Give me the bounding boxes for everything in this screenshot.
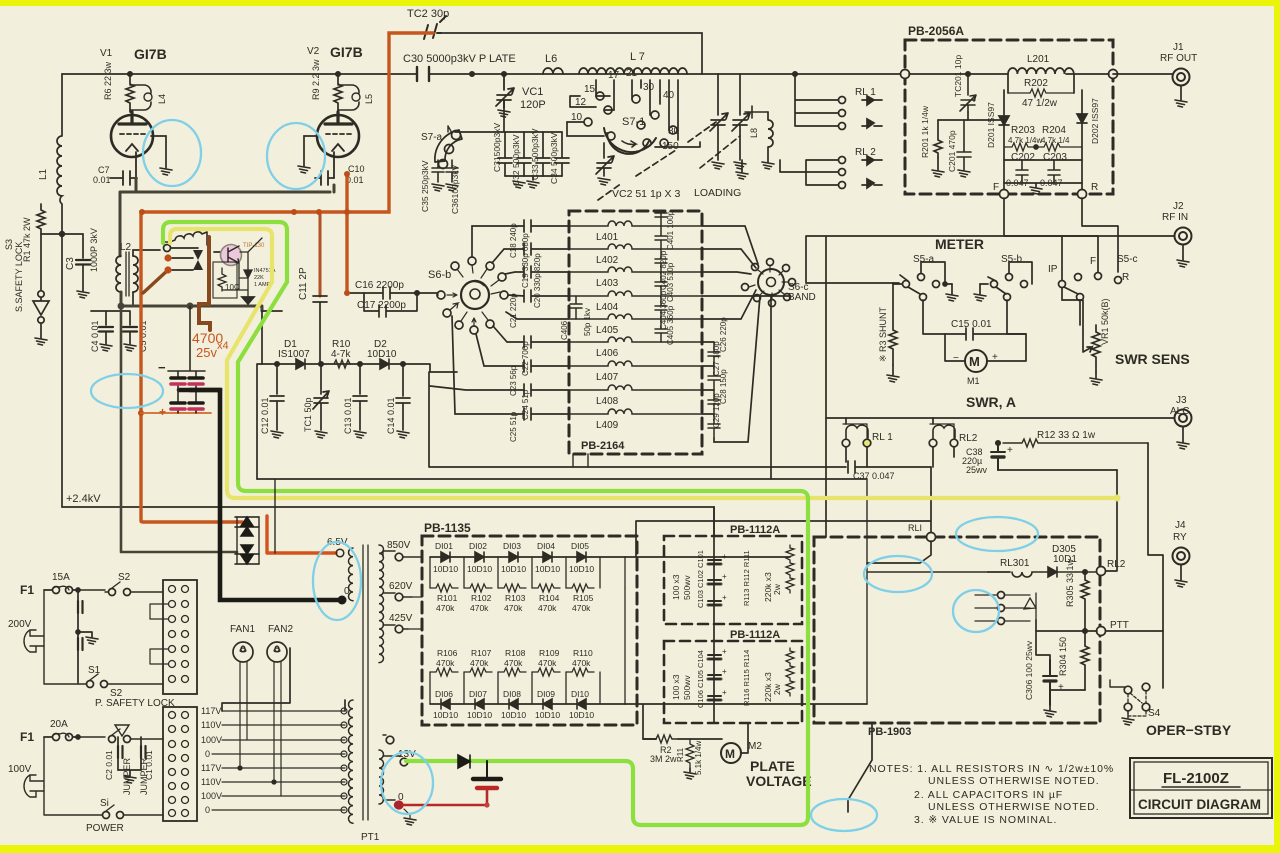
svg-text:R6 22 3w: R6 22 3w <box>103 61 113 100</box>
resistor R105 <box>566 584 594 592</box>
svg-text:RL 2: RL 2 <box>855 147 876 158</box>
wire IP down <box>1062 288 1080 300</box>
annotation ellipse 6.5V winding <box>313 542 361 620</box>
svg-text:10D10: 10D10 <box>367 349 397 360</box>
svg-text:F1: F1 <box>20 583 34 597</box>
svg-text:VC1: VC1 <box>522 86 543 98</box>
wire ell6 row <box>988 571 1010 573</box>
capacitor C26 <box>708 342 720 366</box>
resistor R108 z <box>498 668 526 676</box>
svg-text:R113 R112 R111: R113 R112 R111 <box>742 550 751 606</box>
svg-text:20A: 20A <box>50 719 68 730</box>
capacitor C20 <box>524 266 569 278</box>
ground J2 <box>1177 260 1189 267</box>
svg-text:+2.4kV: +2.4kV <box>66 493 101 505</box>
node red terminal <box>394 801 402 809</box>
resistor R202 <box>1008 89 1074 97</box>
svg-text:+: + <box>722 647 727 656</box>
svg-text:500wv: 500wv <box>682 675 692 700</box>
svg-text:DI03: DI03 <box>503 541 521 551</box>
svg-text:C11 2P: C11 2P <box>298 267 309 300</box>
terminal PTT <box>1097 627 1106 636</box>
wire F1b <box>44 736 78 738</box>
svg-text:2w: 2w <box>772 683 782 695</box>
svg-text:425V: 425V <box>389 613 413 624</box>
relay coil RL1 <box>846 425 868 438</box>
svg-text:C29 120p: C29 120p <box>712 393 721 428</box>
svg-text:C406: C406 <box>560 320 569 340</box>
wire rectifier box <box>237 480 275 564</box>
svg-text:R105: R105 <box>573 593 594 603</box>
capacitor C13 <box>353 364 367 430</box>
svg-text:50p 1kv: 50p 1kv <box>583 308 592 336</box>
transformer PT1 secondary winding <box>379 545 384 663</box>
transformer PT1 13V winding <box>379 750 384 804</box>
capacitor C35 <box>432 160 444 182</box>
wire tap 12 <box>570 96 596 107</box>
svg-text:R108: R108 <box>505 648 526 658</box>
ground 13V <box>404 809 410 818</box>
wire fans joints <box>238 766 242 770</box>
ground L8 <box>762 162 774 169</box>
node 0V terminal <box>338 596 347 605</box>
svg-text:L1: L1 <box>38 168 49 180</box>
svg-text:JUMPER: JUMPER <box>139 757 149 795</box>
svg-text:J4: J4 <box>1175 520 1186 531</box>
svg-text:R304 150: R304 150 <box>1058 637 1068 676</box>
resistor R1 <box>37 204 62 234</box>
svg-text:DI01: DI01 <box>435 541 453 551</box>
svg-text:DI05: DI05 <box>571 541 589 551</box>
resistor R102 <box>464 584 492 592</box>
ground C13 <box>354 431 366 438</box>
ground TC1 <box>315 431 327 438</box>
svg-text:L402: L402 <box>596 255 619 266</box>
diode D110 <box>577 699 586 709</box>
svg-text:C106 C105 C104: C106 C105 C104 <box>696 650 705 708</box>
svg-text:10D10: 10D10 <box>433 564 458 574</box>
node psu mid <box>76 630 80 634</box>
svg-text:C36100p3kV: C36100p3kV <box>450 165 460 214</box>
rectifier diode stack bottom <box>235 545 259 564</box>
svg-text:L 7: L 7 <box>630 51 645 63</box>
svg-text:+: + <box>722 688 727 697</box>
svg-text:R204: R204 <box>1042 125 1066 136</box>
wire V2 grid to ground <box>304 136 319 166</box>
capacitor C16 <box>349 287 438 299</box>
svg-text:470k: 470k <box>538 658 557 668</box>
wire bias bus <box>121 306 262 311</box>
svg-text:C17 2200p: C17 2200p <box>357 300 406 311</box>
wire RLI down <box>867 541 931 563</box>
svg-text:J1: J1 <box>1173 42 1184 53</box>
svg-text:CIRCUIT DIAGRAM: CIRCUIT DIAGRAM <box>1138 797 1261 812</box>
wire S7-1 out <box>567 122 700 147</box>
svg-text:40: 40 <box>663 90 675 101</box>
svg-text:C405 360p: C405 360p <box>666 305 675 345</box>
svg-text:V1: V1 <box>100 48 113 59</box>
switch S5-a <box>903 281 910 288</box>
wire box bottom tail <box>848 723 872 812</box>
switch S6-c contacts <box>752 264 759 271</box>
switch S2b interlock <box>78 729 163 739</box>
node VC1 top <box>502 72 506 76</box>
inductor L402 <box>569 244 702 249</box>
ground J3 <box>1177 442 1189 449</box>
svg-text:METER: METER <box>935 236 984 252</box>
meter M2 <box>721 743 741 763</box>
resistor R106 z <box>430 668 458 676</box>
wire RL1 stubs <box>846 418 867 467</box>
wire 620V into bridge <box>408 597 422 629</box>
wire C306 bottom ground <box>1049 705 1051 710</box>
svg-text:C30 5000p3kV P LATE: C30 5000p3kV P LATE <box>403 53 516 65</box>
capacitor C29 <box>708 414 720 438</box>
tube V2 envelope <box>317 115 359 157</box>
wire R201 top <box>938 119 968 121</box>
svg-text:PB-2164: PB-2164 <box>581 440 625 452</box>
resistor R6 <box>126 74 134 112</box>
node R305 top <box>1083 570 1087 574</box>
node bias mid <box>187 303 194 310</box>
tube V2 cathode <box>332 144 344 151</box>
variable capacitor VC1 <box>496 74 514 108</box>
svg-text:DI02: DI02 <box>469 541 487 551</box>
svg-text:470k: 470k <box>504 658 523 668</box>
wire orange HV feed <box>141 33 433 522</box>
wire green highlight path <box>163 222 808 825</box>
svg-text:RL301: RL301 <box>1000 558 1030 569</box>
node R10 left <box>319 362 323 366</box>
resistor R2 <box>656 735 678 743</box>
svg-text:3M 2w: 3M 2w <box>650 754 677 764</box>
connector J2 <box>1175 228 1192 245</box>
svg-text:22K: 22K <box>254 275 264 281</box>
node yellow end <box>1114 495 1121 502</box>
capacitor stack upper <box>708 560 721 605</box>
wire L2 primary bottom <box>120 292 123 305</box>
ground J4 <box>1175 580 1187 587</box>
svg-text:F: F <box>993 182 999 193</box>
svg-text:620V: 620V <box>389 581 413 592</box>
wire rows to S6c <box>702 226 790 442</box>
capacitor PSU b <box>78 638 83 650</box>
ground VC2 <box>598 178 610 185</box>
capacitor C11 <box>319 212 322 296</box>
border right yellow <box>1274 0 1280 853</box>
svg-text:L407: L407 <box>596 372 619 383</box>
diode D101 <box>441 552 450 562</box>
svg-text:25wv: 25wv <box>966 465 988 475</box>
wire M2 right <box>741 723 748 753</box>
node L2 bottom <box>118 303 125 310</box>
svg-text:FAN2: FAN2 <box>268 624 293 635</box>
svg-text:C21 220p: C21 220p <box>509 293 518 328</box>
svg-text:C306 100 25wv: C306 100 25wv <box>1024 640 1034 700</box>
resistor R104 <box>532 584 560 592</box>
svg-text:R107: R107 <box>471 648 492 658</box>
capacitor C37 <box>429 372 931 473</box>
svg-text:120P: 120P <box>520 99 546 111</box>
box transistor bias <box>213 262 237 298</box>
svg-text:R116 R115 R114: R116 R115 R114 <box>742 650 751 706</box>
svg-text:R103: R103 <box>505 593 526 603</box>
svg-text:L406: L406 <box>596 348 619 359</box>
svg-text:L408: L408 <box>596 396 619 407</box>
wire FAN2 down <box>274 662 281 796</box>
svg-text:PB-2056A: PB-2056A <box>908 24 964 38</box>
svg-text:S4: S4 <box>1148 708 1161 719</box>
capacitor C202 <box>1016 160 1028 183</box>
svg-text:15: 15 <box>584 84 596 95</box>
svg-text:+: + <box>722 593 727 602</box>
svg-text:R: R <box>1091 182 1098 193</box>
svg-text:C401 100p: C401 100p <box>666 210 675 250</box>
capacitor C12 <box>270 364 284 430</box>
terminal primary taps <box>341 708 347 813</box>
svg-text:100 x3: 100 x3 <box>671 574 681 600</box>
switch S power <box>103 812 110 819</box>
svg-text:UNLESS OTHERWISE NOTED.: UNLESS OTHERWISE NOTED. <box>928 775 1100 787</box>
wire orange cap return <box>141 409 211 413</box>
svg-text:−: − <box>158 360 166 375</box>
box PB-1903 <box>814 537 1100 723</box>
switch S3 interlock <box>38 291 44 297</box>
capacitor C7 <box>110 171 137 185</box>
resistor R10 <box>334 360 350 368</box>
wire to J1 <box>1113 73 1172 75</box>
svg-text:+: + <box>722 552 727 561</box>
svg-text:RL2: RL2 <box>1107 559 1126 570</box>
ground C202 <box>1030 187 1042 194</box>
svg-text:R203: R203 <box>1011 125 1035 136</box>
terminal 6.5V circle <box>336 549 344 557</box>
svg-text:PT1: PT1 <box>361 832 380 843</box>
wire C3 branch <box>62 234 83 258</box>
diode D2 <box>380 359 389 369</box>
wire HV feed y521 <box>636 467 931 557</box>
wire C4 C5 branch <box>91 311 130 325</box>
terminal box right <box>1109 70 1118 79</box>
resistor R203 <box>1004 143 1036 151</box>
capacitor C201 <box>957 120 971 170</box>
wire C202/C203 bus <box>1004 160 1082 187</box>
diode D109 <box>543 699 552 709</box>
svg-text:21: 21 <box>626 68 638 79</box>
zener diode <box>240 262 252 286</box>
inductor L404 <box>569 291 702 296</box>
inductor L407 <box>569 361 702 366</box>
svg-text:R9 2.2 3w: R9 2.2 3w <box>311 59 321 100</box>
ground S3 <box>35 338 47 345</box>
wire R2 row <box>643 738 656 740</box>
svg-text:C31500p3kV: C31500p3kV <box>492 123 502 172</box>
node F1b right <box>76 735 80 739</box>
terminal 425V <box>395 625 403 633</box>
capacitor C36 <box>446 160 458 182</box>
wire C306 top <box>1036 620 1050 660</box>
resistor R12 <box>1003 439 1148 447</box>
svg-text:RL 1: RL 1 <box>855 87 876 98</box>
svg-text:10D10: 10D10 <box>569 564 594 574</box>
svg-text:C10: C10 <box>348 164 365 174</box>
svg-text:JUMPER: JUMPER <box>122 757 132 795</box>
svg-text:GI7B: GI7B <box>134 46 167 62</box>
svg-text:S5-b: S5-b <box>1001 254 1023 265</box>
node relay feed <box>793 72 797 76</box>
ground VC1 <box>498 110 510 117</box>
svg-text:OPER−STBY: OPER−STBY <box>1146 722 1232 738</box>
meter M1 <box>965 350 987 372</box>
ground VR1 <box>1095 372 1097 378</box>
terminal strip lower <box>163 707 197 821</box>
capacitor stack lower <box>708 655 721 700</box>
box PB-1112A lower <box>664 641 802 723</box>
annotation ellipse RLI top <box>956 517 1038 551</box>
svg-text:10D10: 10D10 <box>535 564 560 574</box>
svg-text:M1: M1 <box>967 376 980 386</box>
inductor L405 <box>569 314 702 319</box>
capacitor C3 <box>76 260 90 265</box>
switch S4 <box>1124 686 1132 694</box>
svg-text:+: + <box>722 667 727 676</box>
svg-text:L409: L409 <box>596 420 619 431</box>
terminal 850V <box>395 553 403 561</box>
inductor L7 <box>579 68 687 74</box>
wire HV rail left <box>61 234 63 507</box>
switch S2 <box>109 589 116 596</box>
svg-text:IP: IP <box>1048 264 1058 275</box>
wire bridge verticals upper <box>430 557 625 588</box>
svg-text:47 1/2w: 47 1/2w <box>1022 98 1058 109</box>
svg-text:DI09: DI09 <box>537 689 555 699</box>
wire R1 down <box>40 234 42 290</box>
capacitor C22 <box>524 336 569 348</box>
wire x826 riser <box>825 467 827 537</box>
svg-text:R106: R106 <box>437 648 458 658</box>
svg-text:C24 51p: C24 51p <box>521 389 530 420</box>
wire relay feed vertical <box>795 74 838 126</box>
svg-text:1000P 3kV: 1000P 3kV <box>89 228 99 272</box>
title divider <box>1130 789 1272 791</box>
wire strip upper stubs <box>150 604 168 664</box>
resistor R103 <box>498 584 526 592</box>
capacitor TC2 <box>389 16 446 39</box>
svg-text:C3: C3 <box>65 257 76 270</box>
resistor R204 <box>1036 143 1082 151</box>
switch S5-b <box>991 281 998 288</box>
relay RL1 contacts <box>839 97 846 104</box>
svg-text:RY: RY <box>1173 532 1187 543</box>
svg-text:+: + <box>992 352 998 363</box>
diode D107 <box>475 699 484 709</box>
svg-text:PB-1135: PB-1135 <box>424 521 471 535</box>
wire strip lower rows <box>212 711 345 810</box>
capacitor C31 <box>498 132 512 176</box>
wire ALC line <box>826 418 1174 467</box>
capacitor C14 <box>396 364 410 430</box>
svg-text:C37 0.047: C37 0.047 <box>853 471 895 481</box>
capacitor C23 <box>524 360 569 372</box>
wire bridge top rail <box>430 556 625 558</box>
relay coil RL301 <box>1012 572 1048 577</box>
capacitor C19 <box>524 243 569 255</box>
annotation ellipse RL301 contacts <box>953 590 999 632</box>
svg-text:L404: L404 <box>596 302 619 313</box>
capacitor C34 <box>555 132 569 176</box>
wire L201 frame <box>909 74 1109 93</box>
svg-text:C203: C203 <box>1043 152 1067 163</box>
resistor R11 <box>686 739 694 768</box>
svg-text:IS1007: IS1007 <box>278 349 310 360</box>
svg-text:470k: 470k <box>436 658 455 668</box>
svg-text:Si: Si <box>100 798 109 809</box>
ground R3 <box>892 365 894 375</box>
svg-text:R11: R11 <box>676 747 685 762</box>
wire F down <box>1004 198 1098 272</box>
annotation ellipse 13V winding <box>381 752 433 814</box>
capacitor C402 <box>655 249 667 272</box>
transformer PT1 primary winding <box>348 700 353 823</box>
svg-text:SWR SENS: SWR SENS <box>1115 351 1190 367</box>
spokes S6-c <box>749 266 788 299</box>
wire orange rectifier link <box>238 516 336 553</box>
svg-text:R101: R101 <box>437 593 458 603</box>
svg-text:S5-a: S5-a <box>913 254 935 265</box>
ground S4 <box>1122 718 1134 725</box>
svg-text:25v: 25v <box>196 345 217 360</box>
svg-text:LOADING: LOADING <box>694 187 741 199</box>
capacitor C33 <box>536 132 550 176</box>
inductor L1 <box>57 74 62 234</box>
relay armature contact <box>164 245 171 252</box>
wire box bottom stubs <box>573 454 588 467</box>
capacitor C27 <box>708 366 720 390</box>
wire C3 to ground <box>82 265 84 291</box>
wire R304 bottom <box>1050 689 1085 691</box>
tube V1 grid <box>120 133 147 135</box>
inductor L409 <box>569 409 702 414</box>
transistor collector wire <box>214 251 232 253</box>
wire J3 ground <box>1182 427 1184 442</box>
svg-text:0: 0 <box>205 805 210 815</box>
svg-text:PTT: PTT <box>1110 620 1129 631</box>
capacitor C2 <box>118 746 123 758</box>
ground C4 <box>100 344 112 351</box>
wire C16 to S6b <box>437 294 438 296</box>
inductor L4 <box>130 85 151 110</box>
svg-text:100V: 100V <box>201 735 222 745</box>
svg-text:J2: J2 <box>1173 201 1184 212</box>
svg-text:R109: R109 <box>539 648 560 658</box>
wire meter loop left <box>923 300 964 361</box>
wire R3 top <box>893 283 902 284</box>
inductor L403 <box>569 267 702 272</box>
svg-text:C22 700p: C22 700p <box>521 341 530 376</box>
tube V2 grid <box>326 133 353 135</box>
svg-text:500wv: 500wv <box>682 575 692 600</box>
diode D106 <box>441 699 450 709</box>
wire dc filament feed gray <box>121 306 237 552</box>
wire RL2 feed <box>780 160 838 185</box>
annotation ellipse HV rail <box>91 374 163 408</box>
svg-text:470k: 470k <box>572 603 591 613</box>
node TC201 top <box>966 72 970 76</box>
wire rows to upper circuits <box>222 648 345 711</box>
resistor R109 z <box>532 668 560 676</box>
svg-text:BAND: BAND <box>788 292 816 303</box>
transistor Q1 <box>221 245 242 266</box>
